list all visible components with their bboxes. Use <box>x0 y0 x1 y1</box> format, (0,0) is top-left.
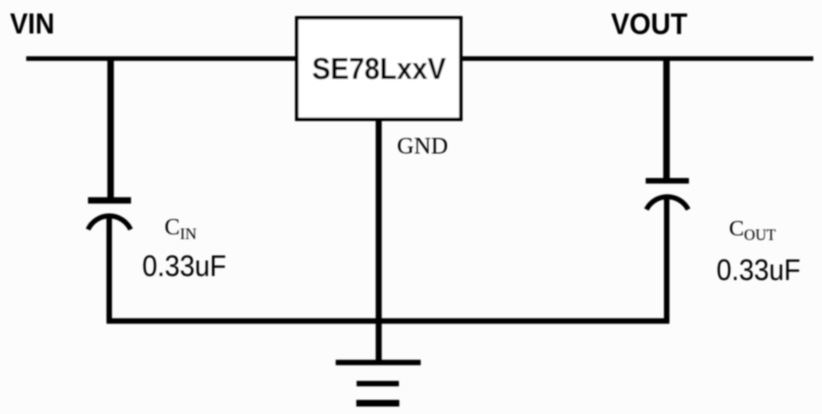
wire: CIN to ground bus <box>106 218 112 321</box>
wire: junction drop from input rail to CIN <box>107 57 114 199</box>
ground symbol bar 1 <box>336 360 421 365</box>
regulator U1 SE78LxxV box <box>297 18 461 120</box>
capacitor CIN top plate <box>88 197 131 203</box>
capacitor CIN curved plate <box>88 216 131 230</box>
wire: GND pin of regulator down to ground <box>376 119 382 362</box>
svg-text:GND: GND <box>397 134 448 160</box>
svg-text:VIN: VIN <box>10 8 55 40</box>
ground symbol bar 3 <box>356 400 399 407</box>
wire: junction drop from output rail to COUT <box>663 57 670 181</box>
wire: ground bus (bottom horizontal) <box>107 318 670 324</box>
ground symbol bar 2 <box>357 381 399 386</box>
svg-text:SE78LxxV: SE78LxxV <box>312 52 447 86</box>
wire: VOUT output rail (right top horizontal) <box>459 56 813 61</box>
wire: VIN input rail (left top horizontal) <box>26 56 298 61</box>
svg-text:VOUT: VOUT <box>611 8 688 41</box>
svg-text:0.33uF: 0.33uF <box>717 254 801 287</box>
capacitor COUT top plate <box>646 178 689 184</box>
svg-text:CIN: CIN <box>165 215 198 244</box>
wire: COUT to ground bus <box>664 198 670 321</box>
svg-text:0.33uF: 0.33uF <box>142 250 226 283</box>
capacitor COUT curved plate <box>646 197 688 210</box>
svg-text:COUT: COUT <box>729 216 776 245</box>
